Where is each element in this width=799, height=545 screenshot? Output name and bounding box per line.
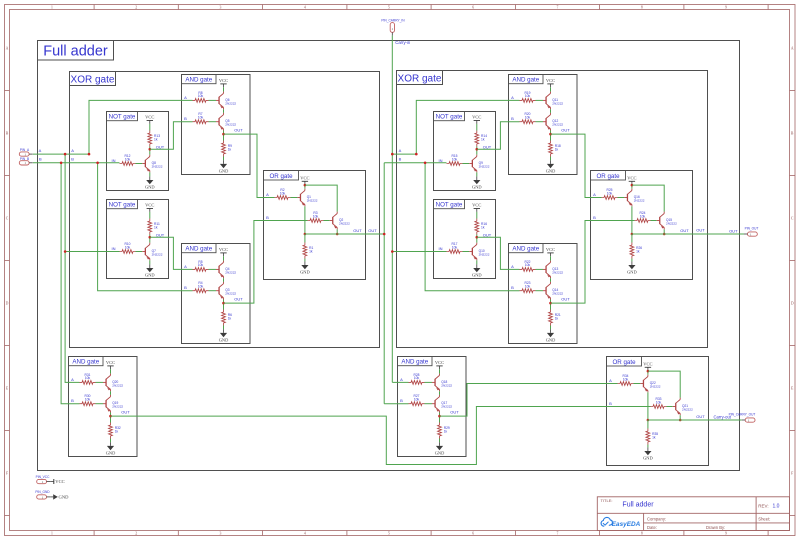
- resistor R4 10k: [193, 289, 209, 293]
- wire carry-in vertical: [391, 36, 393, 383]
- wire AND U3 out to OR U5 A: [224, 134, 275, 197]
- svg-text:OUT: OUT: [353, 228, 362, 233]
- svg-text:A: A: [184, 264, 187, 269]
- svg-text:2N2222: 2N2222: [634, 198, 645, 202]
- wire: [209, 99, 217, 101]
- AND gate U8 label: [509, 75, 544, 84]
- svg-text:1k: 1k: [636, 249, 640, 253]
- wire: [223, 109, 225, 113]
- svg-text:Company:: Company:: [647, 517, 666, 522]
- wire: [679, 415, 681, 420]
- resistor R34 10k: [618, 382, 634, 386]
- ground of NOT gate U1: [149, 176, 151, 180]
- svg-text:GND: GND: [546, 337, 556, 342]
- svg-text:NOT gate: NOT gate: [436, 114, 463, 121]
- wire: [209, 290, 217, 292]
- wire: [439, 391, 441, 395]
- transistor Q12: [543, 121, 546, 123]
- svg-text:A: A: [511, 95, 514, 100]
- svg-text:VCC: VCC: [219, 247, 228, 252]
- wire: [223, 157, 225, 161]
- resistor R19 10k: [520, 99, 536, 103]
- wire: [550, 256, 552, 260]
- transistor Q14: [543, 290, 546, 292]
- svg-text:OUT: OUT: [483, 232, 492, 237]
- svg-text:OR gate: OR gate: [612, 359, 636, 366]
- svg-text:2N2222: 2N2222: [339, 221, 350, 225]
- wire: [651, 220, 657, 222]
- node OUT of AND gate U4: [222, 302, 225, 305]
- AND gate U3 box: [182, 75, 251, 175]
- svg-text:B: B: [71, 398, 74, 403]
- svg-text:2N2222: 2N2222: [666, 221, 677, 225]
- node OUT of NOT gate U1: [149, 148, 152, 151]
- svg-text:IN: IN: [439, 158, 443, 163]
- svg-text:OUT: OUT: [121, 409, 130, 414]
- svg-text:1k: 1k: [481, 137, 485, 141]
- svg-text:A: A: [400, 377, 403, 382]
- svg-text:OR gate: OR gate: [269, 173, 293, 180]
- wire: [550, 157, 552, 161]
- wire: [632, 185, 664, 212]
- svg-text:VCC: VCC: [627, 176, 636, 181]
- svg-text:AND gate: AND gate: [401, 359, 428, 366]
- svg-text:10k: 10k: [525, 263, 531, 267]
- svg-text:OR gate: OR gate: [596, 173, 620, 180]
- svg-text:2N2222: 2N2222: [441, 405, 452, 409]
- svg-text:8: 8: [641, 6, 643, 10]
- transistor Q16: [624, 197, 627, 199]
- resistor R32 1k: [109, 423, 113, 439]
- svg-text:AND gate: AND gate: [185, 246, 212, 253]
- svg-text:A: A: [399, 148, 402, 153]
- wire: [463, 251, 470, 253]
- wire: [223, 256, 225, 260]
- junction: [415, 153, 418, 156]
- AND gate U8 box: [509, 75, 578, 175]
- svg-text:A: A: [609, 378, 612, 383]
- svg-text:1k: 1k: [309, 249, 313, 253]
- svg-text:B: B: [399, 157, 402, 162]
- svg-text:B: B: [609, 401, 612, 406]
- svg-text:B: B: [184, 116, 187, 121]
- svg-text:1k: 1k: [154, 225, 158, 229]
- wire: [536, 290, 544, 292]
- XOR gate 2 label: [397, 71, 443, 85]
- svg-text:1k: 1k: [154, 137, 158, 141]
- wire: [550, 109, 552, 113]
- transistor Q19: [103, 403, 106, 405]
- wire OR U10 out to PIN_OUT: [693, 233, 745, 235]
- svg-text:Full adder: Full adder: [43, 44, 108, 60]
- svg-text:10k: 10k: [414, 398, 420, 402]
- svg-text:F: F: [6, 471, 8, 475]
- resistor R8 10k: [193, 99, 209, 103]
- wire: [476, 235, 478, 243]
- wire carry to AND U8 row: [392, 153, 416, 155]
- wire net B to AND U4: [98, 163, 193, 291]
- wire: [663, 229, 665, 234]
- ground of AND gate U9: [550, 329, 552, 333]
- svg-text:VCC: VCC: [219, 78, 228, 83]
- node OUT of OR gate U5: [304, 233, 307, 236]
- svg-text:2N2222: 2N2222: [225, 101, 236, 105]
- svg-text:VCC: VCC: [300, 176, 309, 181]
- resistor R30 10k: [80, 402, 96, 406]
- svg-text:VCC: VCC: [145, 115, 154, 120]
- resistor R33 10k: [651, 405, 667, 409]
- svg-text:TITLE:: TITLE:: [601, 498, 613, 503]
- svg-text:IN: IN: [112, 246, 116, 251]
- wire: [149, 147, 151, 155]
- svg-text:B: B: [266, 215, 269, 220]
- junction: [64, 153, 67, 156]
- svg-text:5: 5: [388, 532, 390, 536]
- resistor R16 1k: [475, 219, 479, 235]
- frame row ticks: [5, 90, 10, 92]
- wire: [648, 419, 709, 421]
- svg-text:GND: GND: [106, 450, 116, 455]
- wire OR U13 out to PIN_CARRY_OUT: [709, 419, 742, 421]
- svg-text:10k: 10k: [198, 116, 204, 120]
- svg-text:A: A: [593, 192, 596, 197]
- wire: [476, 147, 478, 155]
- svg-text:2N2222: 2N2222: [112, 405, 123, 409]
- wire AND U9 out to OR U10 B: [551, 221, 635, 304]
- junction: [64, 250, 67, 253]
- svg-text:VCC: VCC: [55, 479, 64, 484]
- wire: [304, 234, 306, 243]
- svg-text:GND: GND: [546, 168, 556, 173]
- svg-text:1.0: 1.0: [773, 503, 780, 509]
- resistor R11 1k: [148, 219, 152, 235]
- wire AND U4 out to OR U5 B: [224, 221, 308, 304]
- svg-text:VCC: VCC: [546, 247, 555, 252]
- svg-text:GND: GND: [145, 272, 155, 277]
- svg-text:10k: 10k: [198, 94, 204, 98]
- AND gate U12 box: [398, 357, 467, 457]
- wire: [634, 383, 641, 385]
- svg-text:OUT: OUT: [234, 296, 243, 301]
- ground of OR gate U5: [304, 261, 306, 265]
- NOT gate U7 box: [434, 200, 496, 279]
- svg-text:10k: 10k: [125, 245, 131, 249]
- transistor Q7: [142, 251, 145, 253]
- svg-text:10k: 10k: [198, 285, 204, 289]
- svg-text:OUT: OUT: [156, 144, 165, 149]
- wire: [209, 121, 217, 123]
- wire: [324, 220, 330, 222]
- resistor R29 1k: [438, 423, 442, 439]
- wire: [110, 413, 112, 423]
- wire: [631, 259, 633, 262]
- wire XOR1 out vertical: [383, 163, 385, 404]
- resistor R25 10k: [602, 196, 618, 200]
- resistor R23 10k: [520, 289, 536, 293]
- svg-text:GND: GND: [627, 269, 637, 274]
- NOT gate U7 label: [434, 200, 465, 209]
- resistor R18 1k: [549, 141, 553, 157]
- svg-text:VCC: VCC: [145, 203, 154, 208]
- transistor Q18: [432, 381, 435, 383]
- node OUT of AND gate U12: [438, 415, 441, 418]
- wire net B down bus: [61, 163, 79, 404]
- svg-text:1: 1: [51, 6, 53, 10]
- ground of OR gate U10: [631, 261, 633, 265]
- svg-text:1: 1: [51, 532, 53, 536]
- resistor R24 10k: [635, 219, 651, 223]
- svg-text:8: 8: [641, 532, 643, 536]
- svg-text:10k: 10k: [525, 94, 531, 98]
- svg-text:2N2222: 2N2222: [479, 252, 490, 256]
- wire: [550, 278, 552, 282]
- AND gate U4 box: [182, 244, 251, 344]
- svg-text:B: B: [71, 157, 74, 162]
- wire XOR1 out to AND U12 B: [384, 403, 408, 405]
- wire AND U8 out to OR U10 A: [551, 134, 602, 197]
- OR gate U13 label: [607, 357, 642, 367]
- power VCC symbol at PIN_VCC: [50, 481, 54, 483]
- svg-text:GND: GND: [300, 269, 310, 274]
- ground of NOT gate U2: [149, 264, 151, 268]
- NOT gate U2 box: [107, 200, 169, 279]
- resistor R21 1k: [549, 310, 553, 326]
- transistor Q13: [543, 268, 546, 270]
- NOT gate U6 box: [434, 112, 496, 191]
- wire: [425, 381, 433, 383]
- svg-text:GND: GND: [472, 272, 482, 277]
- svg-text:2N2222: 2N2222: [225, 270, 236, 274]
- OR gate U10 label: [591, 171, 626, 181]
- svg-text:10k: 10k: [313, 214, 319, 218]
- svg-text:PIN_CARRY_IN: PIN_CARRY_IN: [381, 19, 405, 23]
- AND gate U12 label: [398, 357, 433, 366]
- OR gate U10 box: [591, 171, 693, 280]
- wire net A up to AND U3: [89, 100, 193, 154]
- transistor Q15: [657, 220, 660, 222]
- resistor R20 10k: [520, 120, 536, 124]
- wire: [647, 392, 649, 420]
- ground of NOT gate U7: [476, 264, 478, 268]
- resistor R26 1k: [630, 243, 634, 259]
- resistor R2 10k: [275, 196, 291, 200]
- ground of AND gate U4: [223, 329, 225, 333]
- svg-text:10k: 10k: [452, 157, 458, 161]
- ground of NOT gate U6: [476, 176, 478, 180]
- wire XOR1 out to NOT U6: [384, 162, 446, 164]
- AND gate U11 box: [69, 357, 138, 457]
- svg-text:10k: 10k: [452, 245, 458, 249]
- svg-text:2N2222: 2N2222: [225, 123, 236, 127]
- junction: [96, 162, 99, 165]
- junction: [391, 153, 394, 156]
- svg-text:2N2222: 2N2222: [552, 101, 563, 105]
- NOT gate U1 label: [107, 112, 138, 121]
- svg-text:1k: 1k: [652, 435, 656, 439]
- wire: [110, 439, 112, 443]
- node OUT of AND gate U9: [549, 302, 552, 305]
- ground of AND gate U3: [223, 160, 225, 164]
- svg-text:D: D: [791, 301, 794, 305]
- svg-text:OUT: OUT: [729, 228, 738, 233]
- svg-text:IN: IN: [439, 246, 443, 251]
- svg-text:OUT: OUT: [561, 296, 570, 301]
- wire: [110, 391, 112, 395]
- svg-text:1k: 1k: [228, 316, 232, 320]
- node OUT of NOT gate U2: [149, 236, 152, 239]
- svg-text:3: 3: [220, 532, 222, 536]
- ground of AND gate U12: [439, 442, 441, 446]
- wire net A to NOT U2: [65, 251, 119, 253]
- svg-text:OUT: OUT: [680, 228, 689, 233]
- svg-text:6: 6: [472, 6, 474, 10]
- wire: [647, 371, 649, 375]
- svg-text:F: F: [791, 471, 793, 475]
- XOR gate 1 label: [70, 72, 116, 86]
- svg-text:VCC: VCC: [472, 115, 481, 120]
- transistor Q4: [216, 268, 219, 270]
- wire NOT U2 out to AND U4 A: [150, 237, 193, 269]
- transistor Q3: [216, 290, 219, 292]
- resistor R22 10k: [520, 268, 536, 272]
- svg-text:1k: 1k: [228, 147, 232, 151]
- node OUT of NOT gate U6: [476, 148, 479, 151]
- wire: [647, 445, 649, 448]
- svg-text:10k: 10k: [607, 191, 613, 195]
- resistor R35 1k: [646, 429, 650, 445]
- svg-text:2: 2: [135, 532, 137, 536]
- svg-text:OUT: OUT: [368, 228, 377, 233]
- NOT gate U1 box: [107, 112, 169, 191]
- svg-text:XOR gate: XOR gate: [398, 74, 442, 85]
- svg-text:10k: 10k: [656, 400, 662, 404]
- wire: [149, 260, 151, 264]
- svg-text:1k: 1k: [444, 429, 448, 433]
- svg-text:B: B: [184, 285, 187, 290]
- wire: [631, 234, 633, 243]
- svg-text:2: 2: [135, 6, 137, 10]
- wire: [96, 403, 104, 405]
- svg-text:C: C: [791, 216, 794, 220]
- node OUT of AND gate U3: [222, 133, 225, 136]
- resistor R13 1k: [148, 131, 152, 147]
- wire: [550, 300, 552, 310]
- svg-text:Carry-out: Carry-out: [714, 415, 732, 420]
- wire: [223, 87, 225, 91]
- transistor Q22: [640, 383, 643, 385]
- transistor Q9: [469, 163, 472, 165]
- AND gate U4 label: [182, 244, 217, 253]
- wire: [536, 121, 544, 123]
- wire net B row: [33, 162, 120, 164]
- svg-text:Carry-in: Carry-in: [395, 40, 411, 45]
- wire NOT U1 out to AND U3 B: [150, 122, 193, 150]
- svg-text:B: B: [39, 157, 42, 162]
- resistor R31 10k: [80, 381, 96, 385]
- wire: [149, 172, 151, 176]
- junction: [88, 153, 91, 156]
- wire: [304, 185, 306, 189]
- svg-text:3: 3: [220, 6, 222, 10]
- svg-text:GND: GND: [219, 168, 229, 173]
- wire: [439, 439, 441, 443]
- resistor R12 10k: [120, 162, 136, 166]
- wire: [550, 326, 552, 330]
- svg-text:OUT: OUT: [696, 414, 705, 419]
- svg-text:VCC: VCC: [435, 360, 444, 365]
- svg-text:PIN_CARRY_OUT: PIN_CARRY_OUT: [729, 412, 756, 416]
- svg-text:2N2222: 2N2222: [152, 164, 163, 168]
- resistor R5 10k: [193, 268, 209, 272]
- svg-text:10k: 10k: [280, 191, 286, 195]
- wire: [536, 99, 544, 101]
- svg-text:VCC: VCC: [106, 360, 115, 365]
- wire: [439, 413, 441, 423]
- junction: [631, 184, 634, 187]
- wire: [667, 406, 673, 408]
- svg-text:A: A: [71, 148, 74, 153]
- wire NOT U7 out to AND U9 A: [477, 237, 520, 269]
- transistor Q11: [543, 99, 546, 101]
- resistor R10 10k: [120, 250, 136, 254]
- svg-text:GND: GND: [145, 184, 155, 189]
- svg-text:GND: GND: [472, 184, 482, 189]
- svg-text:D: D: [6, 301, 9, 305]
- svg-text:2N2222: 2N2222: [225, 292, 236, 296]
- wire: [149, 212, 151, 219]
- resistor R27 10k: [409, 402, 425, 406]
- XOR gate 1 box: [70, 72, 380, 348]
- full adder label: [38, 41, 114, 61]
- wire: [476, 212, 478, 219]
- svg-text:REV:: REV:: [758, 503, 768, 508]
- NOT gate U6 label: [434, 112, 465, 121]
- junction: [424, 162, 427, 165]
- svg-text:A: A: [39, 148, 42, 153]
- wire carry to AND U12 A: [392, 381, 408, 383]
- NOT gate U2 label: [107, 200, 138, 209]
- svg-text:2N2222: 2N2222: [307, 198, 318, 202]
- transistor Q21: [673, 406, 676, 408]
- ground symbol at PIN_GND: [50, 496, 53, 498]
- transistor Q1: [297, 197, 300, 199]
- svg-text:AND gate: AND gate: [512, 77, 539, 84]
- wire: [291, 197, 298, 199]
- svg-text:10k: 10k: [623, 377, 629, 381]
- AND gate U9 label: [509, 244, 544, 253]
- svg-text:EasyEDA: EasyEDA: [612, 521, 641, 528]
- wire: [223, 278, 225, 282]
- wire: [632, 233, 693, 235]
- wire: [305, 233, 366, 235]
- node OUT of AND gate U11: [109, 415, 112, 418]
- svg-text:6: 6: [472, 532, 474, 536]
- svg-text:10k: 10k: [198, 263, 204, 267]
- wire A2 up to AND U8: [416, 100, 519, 154]
- svg-text:PIN_GND: PIN_GND: [35, 490, 50, 494]
- svg-text:10k: 10k: [640, 214, 646, 218]
- wire: [425, 403, 433, 405]
- wire: [304, 259, 306, 262]
- svg-text:2N2222: 2N2222: [552, 123, 563, 127]
- svg-text:OUT: OUT: [156, 232, 165, 237]
- junction: [647, 370, 650, 373]
- svg-text:PIN_A: PIN_A: [20, 148, 30, 152]
- wire: [476, 172, 478, 176]
- svg-text:A: A: [266, 192, 269, 197]
- node OUT of AND gate U8: [549, 133, 552, 136]
- svg-text:VCC: VCC: [472, 203, 481, 208]
